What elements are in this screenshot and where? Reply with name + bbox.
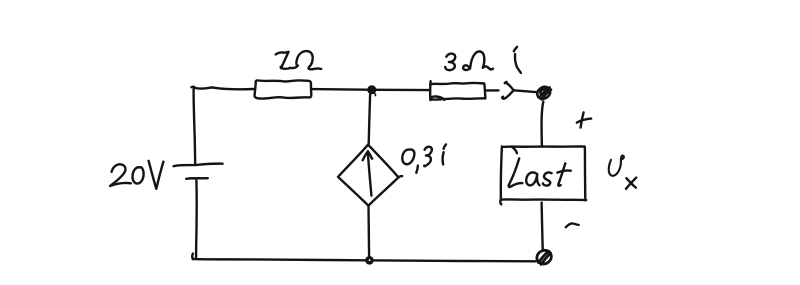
text Last : t [558, 163, 565, 185]
label 0,3i : i accent [444, 144, 446, 148]
plus sign [577, 119, 591, 123]
wire bottom-left corner tick [191, 254, 194, 260]
wire top horizontal left (corner to 7ohm resistor) [194, 87, 254, 89]
node A (top junction, filled dot) [368, 86, 376, 93]
text Last : a [526, 172, 539, 185]
wire arrow to top-right node [514, 90, 538, 92]
text Last : s [543, 172, 552, 185]
dependent current source diamond [338, 145, 398, 206]
wire bottom horizontal [193, 259, 366, 260]
label i (current) body [515, 54, 521, 73]
wire top-left corner tick [192, 86, 195, 89]
diamond right vertex tick [398, 176, 402, 177]
wire diamond to bottom junction [367, 206, 370, 257]
resistor R1 7ohm box [255, 80, 312, 98]
wire junction A to 3ohm resistor [375, 89, 429, 92]
resistor R2 3ohm box [429, 81, 432, 100]
resistor R2 bottom-left pen loop [431, 96, 445, 99]
node bottom junction (filled dot) [366, 257, 373, 264]
label 3ohm : glyph omega cursive [463, 51, 493, 70]
label 3ohm : glyph 3 [445, 54, 455, 71]
minus sign [566, 223, 579, 227]
wire 3ohm resistor to arrow [486, 89, 499, 91]
text Ux : x subscript [626, 178, 635, 187]
node bottom-right (scribble ring) [537, 250, 551, 264]
label 0,3i : 0 [402, 149, 414, 164]
label 0,3i : comma [416, 166, 418, 173]
label 0,3i : 3 [424, 147, 432, 167]
wire 7ohm resistor to junction A [311, 88, 367, 91]
node top-right (scribble blob) [537, 87, 551, 100]
label i (current) accent [514, 47, 517, 51]
text Last : L [509, 158, 523, 187]
load box "Last" [502, 146, 585, 200]
text 20V : 0 [133, 167, 144, 183]
wire Last box down to bottom-right node [542, 203, 543, 250]
arrow inside source : shaft [368, 153, 372, 196]
wire battery down to bottom-left corner [195, 181, 198, 259]
label 7ohm : glyph 7 [276, 52, 289, 68]
text 20V : 2 [110, 164, 131, 186]
wire top-right node down to Last box [542, 102, 544, 146]
label 7ohm : connector stroke [281, 67, 291, 69]
arrow inside source : barbs [363, 151, 368, 160]
battery 20V short plate [186, 177, 208, 180]
text Ux : U [609, 156, 624, 176]
text 20V : V [149, 161, 157, 189]
wire junction A down to diamond [369, 95, 370, 144]
label 7ohm : glyph omega [290, 51, 321, 69]
wire left vertical (corner down to battery) [194, 87, 196, 164]
label 0,3i : i body [443, 152, 444, 164]
arrowhead current i [502, 82, 513, 99]
battery 20V long plate [174, 164, 223, 167]
